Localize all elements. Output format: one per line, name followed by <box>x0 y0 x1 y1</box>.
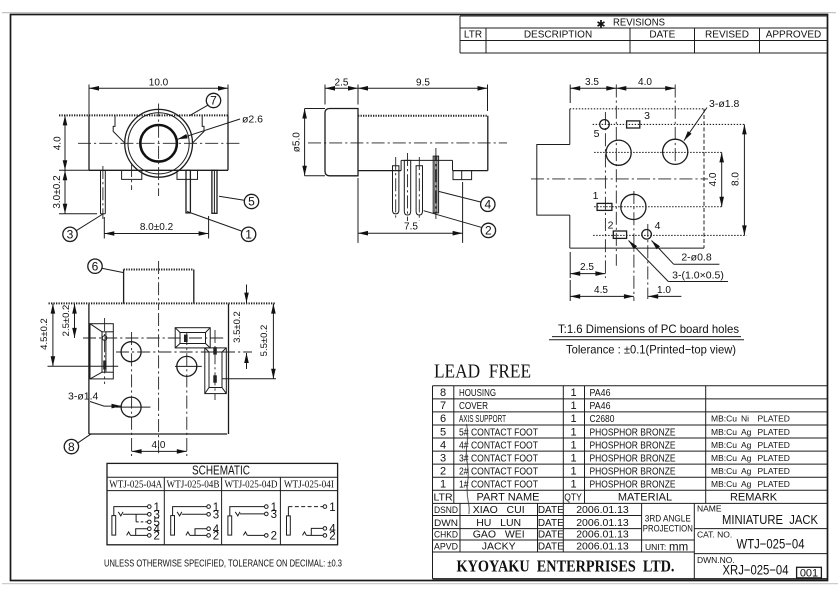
balloon 2 <box>424 211 496 238</box>
svg-text:4.0: 4.0 <box>52 136 63 150</box>
front view centerlines <box>78 104 240 197</box>
projection and unit cells <box>643 514 693 554</box>
svg-text:DESCRIPTION: DESCRIPTION <box>524 30 592 41</box>
svg-text:CAT. NO.: CAT. NO. <box>697 530 732 540</box>
svg-text:2# CONTACT FOOT: 2# CONTACT FOOT <box>459 465 538 477</box>
top view dimensions 3.5 and 4.0 <box>570 77 675 103</box>
svg-text:Ag: Ag <box>741 440 752 450</box>
bottom view dimension 5.5±0.2 <box>222 304 276 379</box>
label 3-ø1.4 with leader <box>68 391 122 407</box>
svg-text:001: 001 <box>800 567 818 579</box>
svg-text:4: 4 <box>440 439 446 451</box>
BOM rows text <box>433 387 789 503</box>
svg-text:3.5: 3.5 <box>585 77 599 88</box>
front view right contact pins <box>186 170 217 213</box>
svg-text:HU LUN: HU LUN <box>476 517 521 529</box>
label 3-ø1.8 with leader <box>684 98 740 141</box>
svg-text:4.0: 4.0 <box>638 77 652 88</box>
svg-text:3-ø1.4: 3-ø1.4 <box>68 391 99 403</box>
svg-text:REVISIONS: REVISIONS <box>613 18 665 29</box>
top view dimension 4.0 vertical <box>708 152 722 206</box>
bottom view right window pocket <box>205 330 227 400</box>
svg-text:2-ø0.8: 2-ø0.8 <box>681 252 712 264</box>
side view foot <box>453 171 472 180</box>
schematic WTJ-025-04I <box>287 502 337 543</box>
front view housing body <box>59 115 228 170</box>
svg-text:REVISED: REVISED <box>705 30 749 41</box>
svg-text:PA46: PA46 <box>590 387 611 399</box>
svg-text:DWN: DWN <box>434 518 458 529</box>
hole ø1.8 bottom <box>621 194 646 219</box>
svg-text:PLATED: PLATED <box>758 479 790 489</box>
svg-text:2.5±0.2: 2.5±0.2 <box>61 305 72 337</box>
top view dimension 4.5 <box>570 280 634 301</box>
svg-text:3: 3 <box>213 509 219 521</box>
svg-text:✱: ✱ <box>596 19 605 31</box>
svg-text:KYOYAKU ENTERPRISES LTD.: KYOYAKU ENTERPRISES LTD. <box>457 557 675 576</box>
bottom view dimension 4.5±0.2 <box>39 304 118 367</box>
svg-text:8: 8 <box>68 440 75 454</box>
svg-text:8.0±0.2: 8.0±0.2 <box>140 222 174 233</box>
balloon 1 <box>187 212 256 242</box>
svg-text:9.5: 9.5 <box>416 77 430 88</box>
svg-text:2.5: 2.5 <box>335 77 349 88</box>
svg-text:1: 1 <box>440 479 446 491</box>
svg-text:PLATED: PLATED <box>758 453 790 463</box>
svg-text:C2680: C2680 <box>590 413 615 425</box>
side view body <box>358 116 488 171</box>
svg-text:PLATED: PLATED <box>758 427 790 437</box>
side view contact pins <box>393 148 439 221</box>
svg-text:3.5±0.2: 3.5±0.2 <box>232 311 243 343</box>
svg-text:T:1.6 Dimensions of PC board h: T:1.6 Dimensions of PC board holes <box>558 322 739 336</box>
svg-text:SCHEMATIC: SCHEMATIC <box>192 462 250 477</box>
svg-text:MB:Cu: MB:Cu <box>711 414 737 424</box>
svg-text:3: 3 <box>644 110 650 122</box>
side view dimension 7.5 <box>358 178 463 243</box>
svg-text:DSND: DSND <box>434 505 458 516</box>
svg-text:DATE: DATE <box>538 530 564 541</box>
svg-text:1: 1 <box>570 465 576 477</box>
hole ø1.8 top-right <box>663 139 688 164</box>
pad 3 <box>627 121 640 128</box>
svg-text:4: 4 <box>484 198 491 212</box>
svg-text:6: 6 <box>92 259 99 273</box>
svg-text:PA46: PA46 <box>590 400 611 412</box>
svg-text:WTJ-025-04B: WTJ-025-04B <box>167 480 220 491</box>
top view dimension 1.0 <box>648 285 681 297</box>
svg-text:LTR: LTR <box>464 30 482 41</box>
svg-text:1# CONTACT FOOT: 1# CONTACT FOOT <box>459 479 538 491</box>
pad 2 <box>613 231 626 238</box>
bottom view hole ø1.4 top <box>121 342 141 362</box>
bottom view dimension 4.0 <box>132 440 187 452</box>
label 2-ø0.8 with leader <box>652 241 720 265</box>
svg-text:WTJ-025-04D: WTJ-025-04D <box>225 480 278 491</box>
balloon 8 <box>64 434 91 454</box>
svg-text:Ni: Ni <box>741 414 749 424</box>
svg-text:1: 1 <box>570 387 576 399</box>
balloon 5 <box>219 194 259 208</box>
schematic WTJ-025-04B <box>171 502 220 543</box>
revisions table <box>460 16 828 53</box>
svg-text:4.5±0.2: 4.5±0.2 <box>39 318 50 350</box>
svg-text:1: 1 <box>245 228 252 242</box>
svg-text:Ag: Ag <box>741 427 752 437</box>
svg-text:5: 5 <box>248 195 255 209</box>
svg-text:1: 1 <box>593 190 599 202</box>
svg-text:DATE: DATE <box>649 30 675 41</box>
side view dimension ø5.0 <box>292 109 325 176</box>
svg-text:4.0: 4.0 <box>152 440 166 451</box>
bottom view body <box>49 303 276 434</box>
svg-text:APPROVED: APPROVED <box>766 30 822 41</box>
svg-text:Tolerance : ±0.1(Printed−top v: Tolerance : ±0.1(Printed−top view) <box>566 343 736 357</box>
title block grid <box>433 503 828 578</box>
svg-text:Ag: Ag <box>741 453 752 463</box>
svg-text:1: 1 <box>570 452 576 464</box>
svg-text:1: 1 <box>570 479 576 491</box>
svg-text:PHOSPHOR BRONZE: PHOSPHOR BRONZE <box>590 452 676 464</box>
svg-text:PLATED: PLATED <box>758 414 790 424</box>
bottom view knob <box>124 261 194 310</box>
bottom view left window pocket <box>90 318 113 384</box>
svg-text:2006.01.13: 2006.01.13 <box>576 541 629 553</box>
svg-text:MB:Cu: MB:Cu <box>711 440 737 450</box>
bottom view hole ø1.4 middle <box>177 356 197 376</box>
svg-text:7: 7 <box>210 94 217 108</box>
svg-text:MB:Cu: MB:Cu <box>711 427 737 437</box>
svg-text:5: 5 <box>594 128 600 140</box>
scan fold artifact line <box>466 424 469 514</box>
svg-text:5.5±0.2: 5.5±0.2 <box>259 325 270 357</box>
svg-text:XRJ−025−04: XRJ−025−04 <box>723 563 789 578</box>
top view knob outline <box>537 145 570 216</box>
svg-text:2006.01.13: 2006.01.13 <box>576 504 629 516</box>
top view body outline <box>570 109 704 248</box>
svg-text:1: 1 <box>570 426 576 438</box>
side view knob <box>325 109 358 176</box>
dwn no cell <box>697 555 821 579</box>
svg-text:3# CONTACT FOOT: 3# CONTACT FOOT <box>459 452 538 464</box>
svg-text:2.5: 2.5 <box>580 262 594 273</box>
svg-text:NAME: NAME <box>697 504 722 514</box>
svg-text:PART NAME: PART NAME <box>477 492 540 504</box>
side view centerline <box>308 142 507 144</box>
svg-text:4.5: 4.5 <box>594 285 608 296</box>
svg-text:DATE: DATE <box>538 542 564 553</box>
svg-text:MATERIAL: MATERIAL <box>618 492 672 504</box>
svg-text:COVER: COVER <box>459 400 488 412</box>
svg-text:5# CONTACT FOOT: 5# CONTACT FOOT <box>459 426 538 438</box>
schematic WTJ-025-04A <box>112 502 161 543</box>
svg-text:mm: mm <box>669 541 688 553</box>
svg-text:PROJECTION: PROJECTION <box>643 524 693 535</box>
svg-text:MINIATURE JACK: MINIATURE JACK <box>722 512 818 527</box>
front view dimension 3.0±0.2 <box>52 170 97 214</box>
balloon 4 <box>439 191 495 211</box>
pad 1 <box>597 203 612 210</box>
title block left rows <box>434 504 629 553</box>
svg-text:Ag: Ag <box>741 479 752 489</box>
svg-text:WTJ-025-04A: WTJ-025-04A <box>109 480 162 491</box>
svg-text:2006.01.13: 2006.01.13 <box>576 529 629 541</box>
svg-text:2: 2 <box>485 224 492 238</box>
svg-text:WTJ-025-04I: WTJ-025-04I <box>284 480 334 491</box>
hole ø1.8 top-left <box>606 140 631 165</box>
svg-text:4.0: 4.0 <box>708 172 719 186</box>
svg-text:PHOSPHOR BRONZE: PHOSPHOR BRONZE <box>590 479 676 491</box>
svg-text:1.0: 1.0 <box>657 285 671 296</box>
front view bottom feet <box>122 164 198 190</box>
svg-text:2: 2 <box>213 531 219 543</box>
front view left contact pin <box>101 166 106 219</box>
name cell <box>697 504 818 528</box>
svg-text:QTY: QTY <box>564 493 582 504</box>
svg-text:1: 1 <box>570 413 576 425</box>
bottom view dimension 3.5±0.2 <box>232 285 247 370</box>
front view dimension 8.0±0.2 <box>104 216 208 239</box>
hole 5 (small) <box>600 120 610 130</box>
BOM table grid <box>433 386 828 504</box>
svg-text:DATE: DATE <box>538 518 564 529</box>
top view centerlines <box>531 85 746 302</box>
bottom view centerlines <box>83 313 252 456</box>
svg-text:REMARK: REMARK <box>730 492 778 504</box>
svg-text:3: 3 <box>271 509 277 521</box>
label 3-(1.0x0.5) with leader <box>629 241 729 282</box>
svg-text:2: 2 <box>608 220 614 232</box>
svg-text:3-(1.0×0.5): 3-(1.0×0.5) <box>672 269 724 281</box>
front view dimension 10.0 <box>89 77 228 115</box>
top view dimension 2.5 <box>570 252 605 278</box>
svg-text:CHKD: CHKD <box>434 530 458 541</box>
balloon 6 <box>88 259 124 273</box>
svg-text:GAO WEI: GAO WEI <box>473 529 525 541</box>
label ø2.6 with leader <box>178 114 264 140</box>
svg-text:3-ø1.8: 3-ø1.8 <box>709 98 740 110</box>
cat no cell <box>697 530 805 552</box>
svg-text:UNLESS OTHERWISE SPECIFIED, TO: UNLESS OTHERWISE SPECIFIED, TOLERANCE ON… <box>104 559 342 570</box>
balloon 3 <box>63 214 103 242</box>
balloon 7 <box>190 93 221 115</box>
svg-text:WTJ−025−04: WTJ−025−04 <box>737 537 805 552</box>
svg-text:UNIT:: UNIT: <box>645 542 666 552</box>
svg-text:XIAO CUI: XIAO CUI <box>473 504 525 516</box>
front view dimension 4.0 <box>52 115 89 170</box>
front view jack barrel circles <box>125 109 193 177</box>
svg-text:7: 7 <box>440 400 446 412</box>
svg-text:2: 2 <box>440 465 446 477</box>
svg-text:4: 4 <box>655 220 661 232</box>
svg-text:AXIS SUPPORT: AXIS SUPPORT <box>459 413 506 425</box>
svg-text:7.5: 7.5 <box>404 222 418 233</box>
svg-text:4# CONTACT FOOT: 4# CONTACT FOOT <box>459 439 538 451</box>
svg-text:5: 5 <box>440 426 446 438</box>
schematic table <box>107 462 338 545</box>
svg-text:2: 2 <box>154 531 160 543</box>
svg-text:8.0: 8.0 <box>731 172 742 186</box>
svg-text:PLATED: PLATED <box>758 466 790 476</box>
svg-text:PLATED: PLATED <box>758 440 790 450</box>
svg-text:2: 2 <box>329 531 335 543</box>
svg-text:3: 3 <box>67 228 74 242</box>
svg-text:PHOSPHOR BRONZE: PHOSPHOR BRONZE <box>590 465 676 477</box>
svg-text:LEAD FREE: LEAD FREE <box>434 361 531 383</box>
svg-text:JACKY: JACKY <box>482 541 516 553</box>
svg-text:ø2.6: ø2.6 <box>242 114 263 126</box>
svg-text:8: 8 <box>440 387 446 399</box>
svg-text:DATE: DATE <box>538 505 564 516</box>
svg-text:1: 1 <box>570 439 576 451</box>
svg-text:APVD: APVD <box>434 542 458 553</box>
svg-text:PHOSPHOR BRONZE: PHOSPHOR BRONZE <box>590 426 676 438</box>
svg-text:2: 2 <box>271 531 277 543</box>
svg-text:10.0: 10.0 <box>149 77 169 88</box>
hole 4 (small) <box>642 230 652 240</box>
svg-text:MB:Cu: MB:Cu <box>711 453 737 463</box>
svg-text:MB:Cu: MB:Cu <box>711 466 737 476</box>
bottom view hole ø1.4 bottom <box>121 397 141 417</box>
svg-text:LTR: LTR <box>433 492 452 504</box>
svg-text:1: 1 <box>329 502 335 514</box>
note T:1.6 <box>549 322 744 340</box>
bottom view dimension 2.5±0.2 <box>61 304 75 338</box>
side view dimensions 2.5 and 9.5 <box>325 77 488 111</box>
top view dimension 8.0 vertical <box>731 124 745 235</box>
svg-text:6: 6 <box>440 413 446 425</box>
bottom view top window pocket <box>175 328 210 348</box>
svg-text:MB:Cu: MB:Cu <box>711 479 737 489</box>
svg-text:Ag: Ag <box>741 466 752 476</box>
svg-text:PHOSPHOR BRONZE: PHOSPHOR BRONZE <box>590 439 676 451</box>
svg-text:3: 3 <box>440 452 446 464</box>
svg-text:2006.01.13: 2006.01.13 <box>576 517 629 529</box>
svg-text:ø5.0: ø5.0 <box>292 132 303 152</box>
schematic WTJ-025-04D <box>228 502 277 543</box>
svg-text:HOUSING: HOUSING <box>459 387 496 399</box>
svg-text:3.0±0.2: 3.0±0.2 <box>52 175 63 209</box>
svg-text:1: 1 <box>570 400 576 412</box>
